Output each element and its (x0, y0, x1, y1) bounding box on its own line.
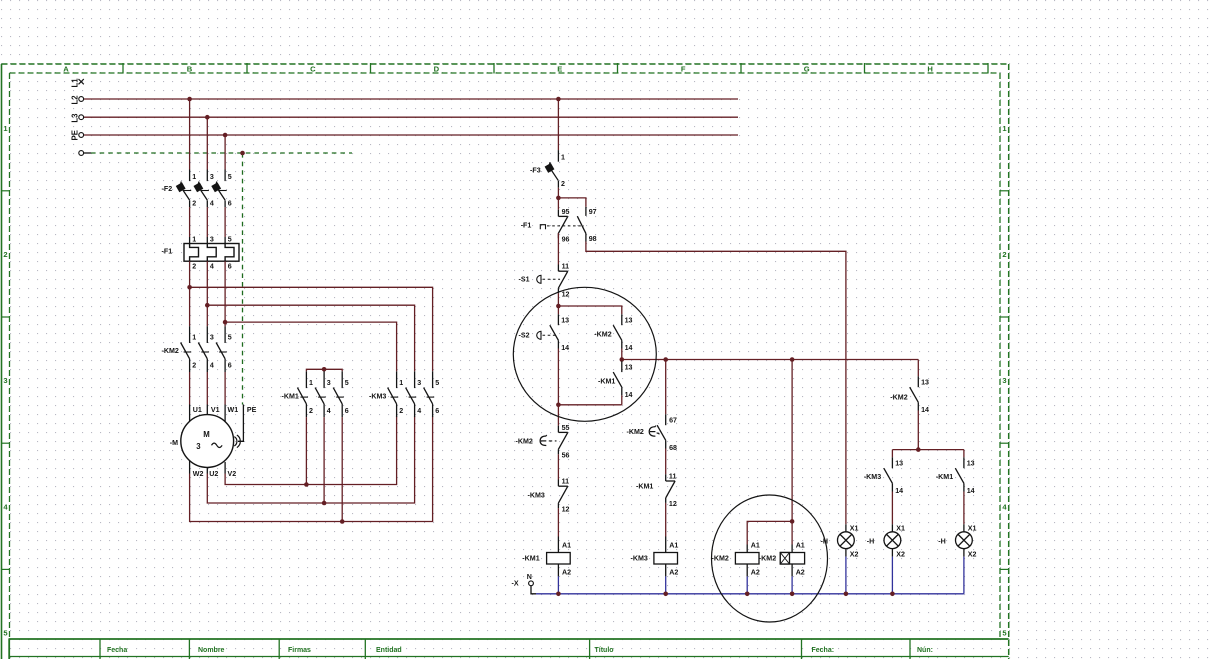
svg-text:14: 14 (561, 344, 569, 352)
svg-text:-KM1: -KM1 (636, 483, 653, 491)
svg-text:E: E (557, 65, 562, 74)
svg-text:6: 6 (228, 262, 232, 270)
svg-text:Título: Título (595, 647, 614, 654)
svg-text:V1: V1 (211, 406, 220, 414)
svg-text:2: 2 (192, 200, 196, 208)
svg-text:3: 3 (417, 379, 421, 387)
svg-text:3: 3 (210, 334, 214, 342)
svg-text:A1: A1 (751, 542, 760, 550)
svg-text:U1: U1 (193, 406, 202, 414)
svg-text:1: 1 (399, 379, 403, 387)
svg-text:12: 12 (562, 290, 570, 298)
svg-text:F: F (681, 65, 686, 74)
svg-text:4: 4 (210, 362, 214, 370)
svg-text:11: 11 (562, 478, 570, 486)
svg-text:-H: -H (938, 537, 946, 545)
svg-text:V2: V2 (228, 470, 237, 478)
svg-text:4: 4 (210, 200, 214, 208)
svg-text:-X: -X (512, 579, 519, 587)
svg-text:-KM3: -KM3 (864, 473, 881, 481)
svg-text:6: 6 (345, 407, 349, 415)
svg-text:2: 2 (561, 180, 565, 188)
svg-text:-KM3: -KM3 (369, 392, 386, 400)
svg-text:1: 1 (192, 235, 196, 243)
svg-text:X2: X2 (896, 551, 905, 559)
svg-text:97: 97 (589, 208, 597, 216)
svg-text:96: 96 (562, 236, 570, 244)
svg-text:U2: U2 (209, 470, 218, 478)
svg-text:N: N (527, 573, 532, 581)
svg-text:A: A (63, 65, 69, 74)
svg-text:A2: A2 (669, 569, 678, 577)
svg-text:-KM2: -KM2 (712, 554, 729, 562)
svg-text:3: 3 (3, 376, 7, 385)
svg-text:A1: A1 (669, 542, 678, 550)
svg-text:68: 68 (669, 444, 677, 452)
svg-text:-F1: -F1 (162, 247, 173, 255)
svg-text:Fecha: Fecha (107, 647, 127, 654)
svg-text:-H: -H (867, 537, 875, 545)
svg-text:14: 14 (895, 487, 903, 495)
svg-text:2: 2 (3, 250, 7, 259)
svg-text:13: 13 (561, 317, 569, 325)
svg-text:H: H (927, 65, 932, 74)
svg-text:Firmas: Firmas (288, 647, 311, 654)
svg-text:14: 14 (967, 487, 975, 495)
svg-text:13: 13 (625, 363, 633, 371)
svg-text:12: 12 (562, 505, 570, 513)
svg-text:-F1: -F1 (521, 221, 532, 229)
svg-text:Entidad: Entidad (376, 647, 402, 654)
svg-text:12: 12 (669, 500, 677, 508)
svg-text:2: 2 (1002, 250, 1006, 259)
svg-text:67: 67 (669, 417, 677, 425)
svg-text:X2: X2 (850, 551, 859, 559)
svg-text:4: 4 (417, 407, 421, 415)
svg-text:2: 2 (192, 362, 196, 370)
svg-text:3: 3 (210, 173, 214, 181)
svg-text:3: 3 (210, 235, 214, 243)
svg-text:6: 6 (435, 407, 439, 415)
svg-text:95: 95 (562, 208, 570, 216)
svg-text:-M: -M (170, 439, 178, 447)
svg-text:4: 4 (327, 407, 331, 415)
svg-text:A2: A2 (562, 569, 571, 577)
svg-text:L1: L1 (71, 78, 80, 88)
svg-text:14: 14 (625, 344, 633, 352)
svg-text:W2: W2 (193, 470, 204, 478)
svg-text:1: 1 (561, 153, 565, 161)
svg-text:-KM1: -KM1 (936, 473, 953, 481)
svg-text:-KM2: -KM2 (627, 428, 644, 436)
svg-text:Nún:: Nún: (917, 647, 933, 654)
svg-text:A1: A1 (562, 542, 571, 550)
svg-text:11: 11 (669, 473, 677, 481)
svg-text:D: D (434, 65, 440, 74)
svg-text:13: 13 (921, 379, 929, 387)
svg-text:PE: PE (247, 406, 257, 414)
svg-text:A2: A2 (796, 569, 805, 577)
svg-text:14: 14 (921, 406, 929, 414)
svg-text:L2: L2 (71, 95, 80, 105)
svg-text:13: 13 (625, 317, 633, 325)
svg-text:5: 5 (435, 379, 439, 387)
svg-text:98: 98 (589, 235, 597, 243)
svg-text:2: 2 (309, 407, 313, 415)
svg-text:2: 2 (399, 407, 403, 415)
svg-text:1: 1 (192, 334, 196, 342)
svg-text:A1: A1 (796, 542, 805, 550)
svg-text:5: 5 (345, 379, 349, 387)
svg-text:-F2: -F2 (162, 185, 173, 193)
svg-text:C: C (310, 65, 316, 74)
svg-text:3: 3 (196, 442, 201, 451)
svg-text:M: M (203, 430, 210, 439)
svg-text:X1: X1 (850, 525, 859, 533)
svg-text:4: 4 (210, 262, 214, 270)
svg-text:X1: X1 (896, 525, 905, 533)
svg-text:5: 5 (228, 173, 232, 181)
svg-text:56: 56 (562, 452, 570, 460)
svg-text:-KM2: -KM2 (759, 554, 776, 562)
svg-text:Fecha:: Fecha: (812, 647, 835, 654)
svg-text:-KM1: -KM1 (282, 392, 299, 400)
svg-text:-KM1: -KM1 (522, 554, 539, 562)
svg-text:-KM2: -KM2 (516, 437, 533, 445)
svg-text:A2: A2 (751, 569, 760, 577)
svg-text:3: 3 (1002, 376, 1006, 385)
svg-text:6: 6 (228, 200, 232, 208)
svg-text:2: 2 (192, 262, 196, 270)
svg-text:-KM2: -KM2 (162, 347, 179, 355)
svg-text:B: B (187, 65, 193, 74)
svg-text:X2: X2 (968, 551, 977, 559)
svg-text:G: G (804, 65, 810, 74)
svg-text:-S2: -S2 (519, 331, 530, 339)
svg-text:Nombre: Nombre (198, 647, 225, 654)
svg-text:-KM1: -KM1 (598, 377, 615, 385)
svg-text:1: 1 (192, 173, 196, 181)
svg-text:14: 14 (625, 391, 633, 399)
svg-text:-KM3: -KM3 (631, 554, 648, 562)
svg-text:55: 55 (562, 424, 570, 432)
svg-text:-S1: -S1 (519, 275, 530, 283)
svg-text:-KM2: -KM2 (594, 330, 611, 338)
svg-text:11: 11 (562, 263, 570, 271)
svg-text:W1: W1 (228, 406, 239, 414)
svg-text:-KM2: -KM2 (890, 394, 907, 402)
svg-text:13: 13 (895, 460, 903, 468)
svg-text:5: 5 (228, 334, 232, 342)
svg-text:L3: L3 (71, 113, 80, 123)
svg-text:6: 6 (228, 362, 232, 370)
svg-text:X1: X1 (968, 525, 977, 533)
svg-text:5: 5 (228, 235, 232, 243)
svg-text:13: 13 (967, 460, 975, 468)
svg-text:-KM3: -KM3 (528, 491, 545, 499)
svg-text:1: 1 (309, 379, 313, 387)
svg-text:-F3: -F3 (530, 167, 541, 175)
svg-text:3: 3 (327, 379, 331, 387)
